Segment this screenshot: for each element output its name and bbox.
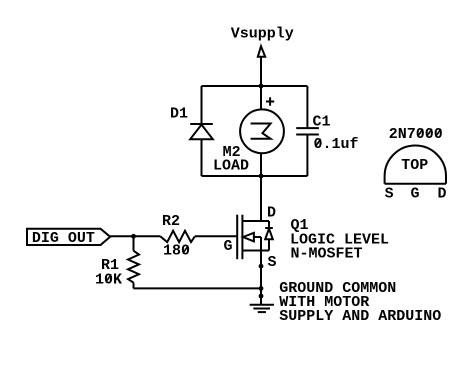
svg-text:LOAD: LOAD <box>213 157 249 174</box>
motor M letter (rotated) <box>251 124 271 139</box>
node input junction <box>131 234 136 239</box>
wire bottom rail <box>202 175 308 177</box>
svg-text:G: G <box>224 238 233 255</box>
wire top rail to D1 <box>201 86 203 124</box>
node top junction <box>259 84 264 89</box>
label 2N7000 <box>389 126 443 143</box>
wire motor to bottom rail <box>260 153 262 176</box>
value 180 <box>163 243 190 260</box>
svg-text:C1: C1 <box>313 114 331 131</box>
wire top rail to C1 <box>306 86 308 128</box>
value 0.1uf <box>314 136 359 153</box>
value 10K <box>95 271 122 288</box>
svg-text:DIG OUT: DIG OUT <box>32 230 95 247</box>
svg-text:D: D <box>267 205 276 222</box>
node ground stem junction <box>259 294 264 299</box>
wire R2 to gate <box>195 235 237 237</box>
svg-text:D: D <box>438 186 447 203</box>
package outline 2N7000 TO-92 <box>385 146 446 184</box>
resistor R1 <box>128 236 139 288</box>
connector flag DIG OUT <box>27 229 110 245</box>
wire top rail to motor <box>260 86 262 110</box>
body diode of Q1 <box>265 221 273 251</box>
svg-text:S: S <box>268 254 277 271</box>
ground symbol <box>250 305 274 312</box>
node ground wire junction <box>259 286 264 291</box>
power arrow Vsupply <box>258 46 265 57</box>
svg-text:2N7000: 2N7000 <box>389 126 443 143</box>
wire R1 to ground node <box>134 287 262 289</box>
node bottom junction <box>259 174 264 179</box>
svg-text:N-MOSFET: N-MOSFET <box>291 246 363 263</box>
diode D1 <box>190 124 213 176</box>
svg-text:TOP: TOP <box>401 157 428 174</box>
svg-text:S: S <box>385 186 394 203</box>
node source junction <box>259 264 264 269</box>
svg-text:0.1uf: 0.1uf <box>314 136 359 153</box>
svg-text:R2: R2 <box>162 213 180 230</box>
wire flag to node <box>110 235 134 237</box>
wire bottom rail to drain <box>260 176 262 221</box>
svg-text:10K: 10K <box>95 271 122 288</box>
wire top rail <box>202 85 308 87</box>
wire source to ground <box>260 251 262 305</box>
wire arrow to top rail <box>260 57 262 86</box>
svg-text:Vsupply: Vsupply <box>231 25 294 42</box>
svg-text:SUPPLY AND ARDUINO: SUPPLY AND ARDUINO <box>279 308 441 325</box>
capacitor C1 <box>296 128 319 176</box>
wire node to R2 <box>134 235 161 237</box>
svg-text:G: G <box>411 186 420 203</box>
motor M2 circle <box>240 109 284 153</box>
transistor Q1 mosfet <box>237 215 269 260</box>
resistor R2 <box>160 231 195 242</box>
svg-text:180: 180 <box>163 243 190 260</box>
plus polarity mark <box>266 97 274 105</box>
svg-text:D1: D1 <box>170 106 188 123</box>
